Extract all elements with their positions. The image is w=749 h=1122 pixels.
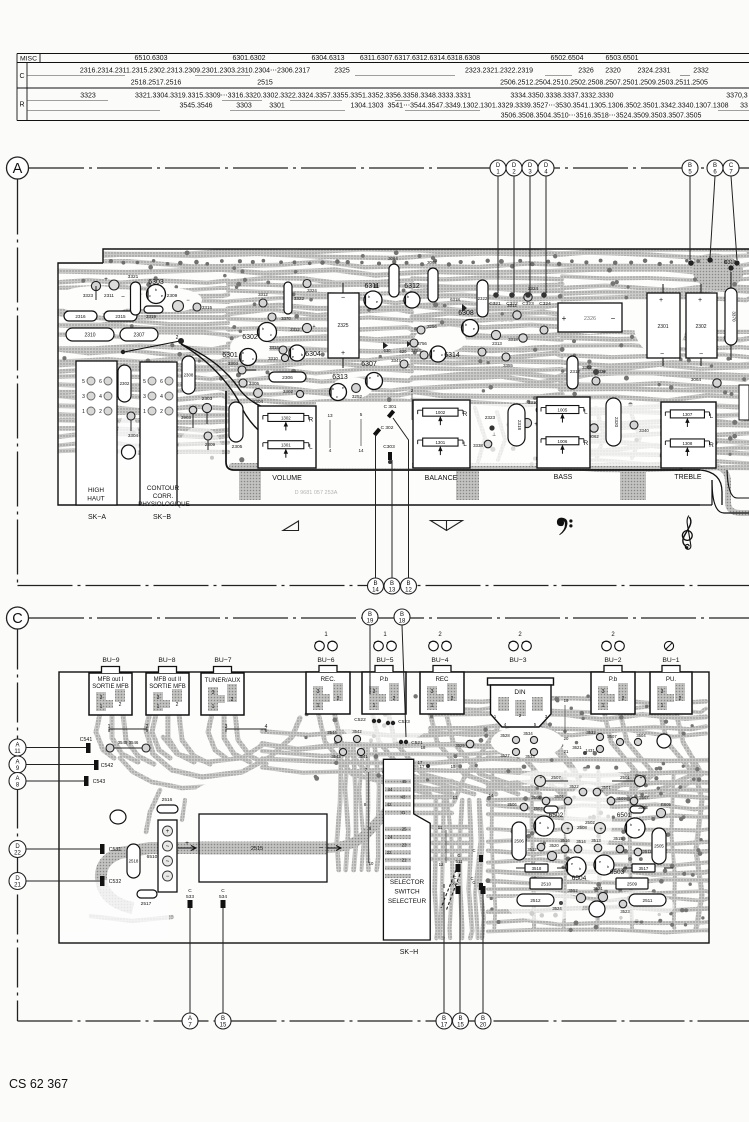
svg-text:511: 511: [456, 859, 464, 864]
svg-text:6308: 6308: [458, 310, 474, 317]
svg-text:3: 3: [143, 394, 146, 400]
resistor 3370b: [268, 313, 276, 321]
svg-text:3544: 3544: [327, 730, 337, 735]
svg-text:2512: 2512: [530, 898, 541, 903]
resistor 3518: [525, 864, 548, 872]
svg-text:−: −: [660, 351, 664, 358]
svg-text:2509: 2509: [627, 881, 638, 886]
svg-text:e: e: [638, 828, 640, 832]
node B14: [368, 578, 384, 594]
resistor 3062: [428, 268, 438, 302]
svg-text:c: c: [252, 356, 254, 361]
svg-text:3302: 3302: [283, 389, 294, 394]
transistor 6301: [240, 349, 257, 366]
wire A8 to cap: [26, 780, 86, 782]
svg-text:2309: 2309: [167, 293, 178, 299]
svg-text:19: 19: [564, 698, 569, 703]
svg-text:1002: 1002: [435, 410, 445, 415]
svg-text:3515: 3515: [613, 836, 623, 841]
icon jack pair BU-2: [602, 632, 625, 651]
wire to B15 left: [222, 908, 224, 1013]
svg-text:3062: 3062: [427, 260, 437, 265]
svg-text:SK−A: SK−A: [88, 514, 106, 521]
capacitor 2308: [182, 356, 195, 394]
resistor 3343: [417, 326, 425, 334]
svg-text:3533: 3533: [525, 754, 535, 759]
svg-text:−: −: [341, 295, 345, 302]
svg-text:2311: 2311: [104, 293, 114, 298]
svg-text:BALANCE: BALANCE: [425, 475, 458, 482]
svg-text:−: −: [121, 294, 125, 301]
resistor 3252: [352, 384, 361, 393]
connector BU-9 MFB out I: [89, 667, 132, 716]
svg-text:620: 620: [400, 349, 408, 354]
svg-text:SK−H: SK−H: [400, 949, 418, 956]
svg-text:MISC: MISC: [20, 56, 37, 63]
svg-text:+: +: [312, 324, 315, 330]
svg-text:b: b: [547, 826, 549, 830]
svg-text:3: 3: [157, 695, 160, 701]
svg-text:3301: 3301: [269, 103, 285, 110]
node D1: [490, 160, 506, 176]
resistor 3515: [616, 845, 624, 853]
connector SK-A pins: [82, 377, 112, 415]
rectifier 6510: [158, 820, 177, 892]
svg-text:15: 15: [220, 1023, 227, 1029]
svg-text:1: 1: [317, 703, 320, 709]
svg-text:2332: 2332: [693, 68, 709, 75]
capacitor 2501: [635, 776, 646, 787]
svg-text:1307: 1307: [683, 412, 693, 417]
wire section A dash-dot border: [18, 168, 749, 586]
resistor 3522: [579, 788, 587, 796]
svg-text:630: 630: [384, 348, 392, 353]
svg-text:~: ~: [166, 844, 170, 850]
parts right edge box: [739, 385, 749, 420]
svg-text:⊥: ⊥: [492, 432, 496, 438]
svg-text:E605: E605: [661, 802, 671, 807]
svg-text:D: D: [15, 876, 20, 882]
resistor 2516: [157, 805, 178, 813]
svg-text:A: A: [188, 1016, 192, 1022]
svg-text:C531: C531: [109, 847, 122, 853]
resistor 1431: [596, 745, 603, 752]
svg-text:2511: 2511: [643, 898, 653, 903]
svg-text:3: 3: [100, 695, 103, 701]
svg-text:6504: 6504: [572, 875, 587, 882]
wire A11 to cap: [26, 747, 88, 749]
svg-text:c: c: [441, 352, 443, 357]
svg-text:2507: 2507: [551, 775, 561, 780]
svg-text:MFB out II: MFB out II: [154, 677, 182, 683]
svg-text:10: 10: [369, 861, 374, 866]
capacitor C543: [84, 776, 89, 786]
svg-text:3303: 3303: [236, 103, 252, 110]
icon jack pair BU-3: [509, 632, 532, 651]
svg-text:3324: 3324: [307, 288, 317, 293]
wire section C dash-dot border: [18, 618, 749, 1021]
pin bracket 3-4: [226, 729, 266, 732]
pin numbers switch left outside: [364, 767, 374, 866]
svg-text:2: 2: [518, 632, 522, 638]
svg-text:−: −: [319, 845, 323, 852]
capacitor 2326: [558, 303, 622, 332]
resistor 3315: [193, 303, 201, 311]
svg-text:2302: 2302: [120, 381, 130, 386]
svg-text:3506: 3506: [507, 802, 517, 807]
resistor 2307: [120, 328, 158, 341]
svg-text:D: D: [544, 163, 549, 169]
svg-text:1308: 1308: [683, 441, 693, 446]
svg-text:3064: 3064: [388, 256, 398, 261]
svg-text:3321.3304.3319.3315.3309⋯3316.: 3321.3304.3319.3315.3309⋯3316.3320.3302.…: [135, 93, 471, 100]
capacitor C542: [94, 760, 99, 770]
svg-text:+: +: [659, 297, 663, 304]
svg-text:5: 5: [143, 379, 146, 385]
svg-text:2517: 2517: [141, 901, 152, 907]
capacitor C531: [100, 844, 105, 854]
svg-text:1: 1: [143, 409, 146, 415]
icon bowtie loudness: [431, 521, 463, 531]
capacitor 2304: [254, 389, 263, 398]
svg-text:2306: 2306: [282, 375, 293, 381]
svg-text:2324.2331: 2324.2331: [637, 68, 670, 75]
svg-text:6304.6313: 6304.6313: [311, 55, 344, 62]
svg-text:3524: 3524: [552, 906, 562, 911]
svg-text:3: 3: [431, 689, 434, 695]
resistor 2310: [66, 328, 114, 341]
svg-text:1: 1: [108, 724, 111, 730]
node pad C7: [734, 260, 739, 265]
svg-text:2301: 2301: [657, 324, 668, 330]
svg-text:SWITCH: SWITCH: [394, 889, 420, 896]
svg-text:2: 2: [231, 697, 234, 703]
svg-text:SK−B: SK−B: [153, 514, 171, 521]
resistor 3310: [281, 354, 288, 361]
svg-text:3542: 3542: [352, 729, 362, 734]
svg-text:15: 15: [457, 1023, 464, 1029]
svg-text:3505: 3505: [531, 795, 541, 800]
svg-text:+: +: [341, 350, 345, 357]
node A8: [9, 773, 26, 790]
svg-text:L: L: [309, 444, 313, 451]
resistor 3514: [574, 845, 582, 853]
resistor 3321: [131, 282, 141, 315]
resistor 3511: [634, 848, 642, 856]
resistor 3302: [296, 390, 303, 397]
svg-text:33: 33: [740, 103, 748, 110]
svg-text:3545.3546: 3545.3546: [179, 103, 212, 110]
resistor 3545 3546: [106, 744, 114, 752]
svg-text:C322: C322: [506, 301, 518, 307]
svg-text:3355: 3355: [503, 363, 513, 368]
svg-text:3323: 3323: [80, 93, 96, 100]
svg-text:C522: C522: [354, 717, 366, 723]
svg-text:2: 2: [160, 409, 163, 415]
svg-text:42: 42: [387, 802, 392, 807]
capacitor 2313: [491, 330, 500, 339]
svg-text:3315: 3315: [202, 305, 213, 310]
node D3: [522, 160, 538, 176]
svg-text:14: 14: [358, 448, 364, 453]
svg-text:2: 2: [337, 696, 340, 702]
svg-text:C 301: C 301: [384, 404, 397, 410]
svg-text:3504: 3504: [636, 733, 646, 738]
svg-text:3340: 3340: [639, 428, 649, 433]
wire B19 to board: [369, 625, 371, 694]
node C7: [723, 160, 739, 176]
resistor 3517: [632, 864, 655, 872]
svg-text:c: c: [149, 293, 151, 298]
svg-text:3523: 3523: [620, 909, 630, 914]
svg-text:11: 11: [14, 749, 21, 755]
resistor 2316: [64, 311, 97, 321]
svg-text:1005: 1005: [558, 408, 568, 413]
node B12: [401, 578, 417, 594]
svg-text:6301: 6301: [222, 352, 238, 359]
svg-text:3256: 3256: [427, 324, 437, 329]
svg-text:3534: 3534: [523, 731, 533, 736]
capacitor 2324: [522, 418, 531, 427]
wire dashed linkage 2: [446, 874, 460, 911]
capacitor 2309: [173, 301, 184, 312]
svg-text:BASS: BASS: [554, 474, 573, 481]
resistor 3370: [725, 288, 737, 345]
svg-text:4: 4: [99, 394, 102, 400]
svg-text:HAUT: HAUT: [87, 496, 104, 503]
wire D22 to cap: [26, 848, 102, 850]
wire D4 to board: [545, 176, 547, 293]
svg-text:TUNER/AUX: TUNER/AUX: [205, 677, 241, 684]
wire to B17: [443, 900, 445, 1013]
svg-text:1302: 1302: [281, 415, 291, 420]
resistor 3310: [536, 406, 544, 414]
svg-text:13: 13: [327, 413, 333, 418]
svg-text:L: L: [710, 413, 714, 420]
resistor 3502: [576, 893, 585, 902]
svg-text:C541: C541: [80, 737, 93, 743]
capacitor 2309b: [204, 432, 212, 440]
svg-text:3545 3546: 3545 3546: [118, 740, 139, 745]
svg-text:4: 4: [160, 394, 163, 400]
svg-text:BU−4: BU−4: [431, 657, 448, 664]
svg-text:BU−5: BU−5: [376, 657, 393, 664]
svg-text:D: D: [528, 163, 533, 169]
svg-text:3503: 3503: [638, 805, 648, 810]
svg-text:3319: 3319: [146, 314, 157, 319]
resistor 3532: [596, 733, 603, 740]
resistor 3303: [238, 366, 246, 374]
svg-text:C323: C323: [522, 301, 534, 307]
svg-text:A: A: [15, 760, 19, 766]
svg-text:6510.6303: 6510.6303: [134, 55, 167, 62]
svg-text:6510: 6510: [147, 854, 158, 860]
svg-text:SELECTEUR: SELECTEUR: [388, 898, 427, 905]
resistor 3064: [389, 264, 399, 297]
svg-text:B: B: [390, 581, 394, 587]
resistor 3324b: [303, 280, 311, 288]
capacitor 2320: [606, 398, 621, 446]
svg-text:2307: 2307: [133, 332, 144, 338]
wire C7 to board: [731, 176, 737, 260]
svg-text:21: 21: [564, 749, 569, 754]
svg-text:c: c: [270, 332, 272, 337]
svg-text:2316: 2316: [75, 314, 86, 319]
svg-text:b: b: [607, 865, 609, 869]
node A11: [9, 739, 26, 756]
svg-text:3302: 3302: [582, 365, 592, 370]
svg-text:23: 23: [402, 843, 407, 848]
svg-text:3252: 3252: [352, 394, 363, 399]
node B18: [394, 609, 410, 625]
svg-text:4: 4: [329, 448, 332, 453]
svg-text:3318: 3318: [508, 337, 518, 342]
resistor 3302b: [567, 356, 578, 389]
icon triangle: [283, 521, 299, 531]
resistor 2306: [269, 372, 306, 382]
capacitor 2502: [595, 823, 606, 834]
svg-text:2506: 2506: [514, 839, 524, 844]
svg-text:22: 22: [14, 851, 21, 857]
potentiometer VOLUME 1302/1301: [258, 406, 316, 468]
hole lower: [589, 901, 605, 917]
svg-text:3507: 3507: [639, 795, 649, 800]
transistor 6501: [625, 818, 645, 838]
node A9: [9, 756, 26, 773]
svg-text:1: 1: [82, 409, 85, 415]
svg-text:15: 15: [451, 764, 456, 769]
transistor 6302: [258, 323, 277, 342]
connector BU-5 Pb: [362, 666, 406, 715]
svg-text:3529: 3529: [455, 743, 465, 748]
svg-text:2312: 2312: [290, 327, 300, 332]
resistor 3338: [484, 440, 492, 448]
svg-text:3324: 3324: [528, 286, 539, 291]
svg-text:3303: 3303: [228, 361, 239, 366]
svg-text:D 9681 057 253A: D 9681 057 253A: [295, 490, 338, 496]
svg-text:3528: 3528: [500, 733, 510, 738]
svg-text:2326: 2326: [578, 68, 594, 75]
svg-text:3310: 3310: [268, 356, 278, 361]
svg-text:2: 2: [176, 335, 179, 341]
svg-text:1: 1: [324, 632, 328, 638]
svg-text:2326: 2326: [584, 316, 596, 322]
svg-text:3: 3: [225, 724, 228, 730]
wire black bus line above bottom strip: [226, 391, 700, 470]
svg-text:3518: 3518: [532, 866, 542, 871]
svg-text:2310: 2310: [84, 332, 95, 338]
node B13: [384, 578, 400, 594]
svg-text:2303: 2303: [202, 396, 213, 402]
svg-text:2313: 2313: [492, 341, 502, 346]
svg-text:1: 1: [157, 704, 160, 710]
resistor 3319: [144, 306, 163, 313]
capacitor 2515: [178, 814, 341, 882]
hole right: [657, 734, 671, 748]
svg-text:C: C: [221, 888, 225, 894]
wire B18 to board: [402, 625, 406, 737]
svg-text:3507: 3507: [607, 734, 617, 739]
resistor 3323: [83, 281, 101, 300]
svg-text:3347: 3347: [391, 358, 401, 363]
capacitor 2518: [127, 844, 140, 878]
svg-text:3: 3: [373, 689, 376, 695]
resistor 3062c: [590, 424, 598, 432]
svg-text:6303: 6303: [148, 279, 164, 286]
svg-text:b: b: [579, 867, 581, 871]
svg-text:+: +: [640, 775, 643, 781]
svg-text:D: D: [15, 844, 20, 850]
svg-text:BU−2: BU−2: [604, 657, 621, 664]
resistor 3304: [127, 412, 135, 420]
connector BU-1 PU: [650, 666, 692, 715]
svg-text:45: 45: [402, 779, 407, 784]
resistor 3305: [239, 379, 247, 387]
svg-text:BU−8: BU−8: [158, 657, 175, 664]
svg-text:3314: 3314: [269, 345, 279, 350]
svg-text:11: 11: [438, 825, 443, 830]
svg-text:2508: 2508: [577, 825, 587, 830]
svg-text:3514: 3514: [576, 839, 586, 844]
transistor 6314: [430, 346, 446, 362]
svg-text:2: 2: [146, 724, 149, 730]
connector SK-A compartment: [76, 361, 117, 505]
svg-text:6302: 6302: [242, 334, 258, 341]
svg-text:C542: C542: [101, 763, 114, 769]
resistor 3512: [537, 843, 545, 851]
resistor 3320: [540, 326, 548, 334]
svg-text:3506.3508.3504.3510⋯3516.3518⋯: 3506.3508.3504.3510⋯3516.3518⋯3524.3509.…: [501, 113, 702, 120]
svg-text:PU.: PU.: [666, 676, 677, 683]
potentiometer BASS 1005/1006: [537, 397, 590, 468]
connector BU-3 DIN: [488, 678, 554, 727]
svg-text:3334.3350.3338.3337.3332.3330: 3334.3350.3338.3337.3332.3330: [510, 93, 613, 100]
svg-text:3604: 3604: [554, 794, 564, 799]
svg-text:e: e: [599, 860, 601, 864]
svg-text:3: 3: [82, 394, 85, 400]
capacitor C541: [86, 743, 91, 753]
resistor 3534: [530, 736, 537, 743]
capacitor 2318: [508, 404, 525, 446]
transistor 6311: [364, 291, 382, 309]
svg-text:3541: 3541: [358, 754, 368, 759]
svg-text:B: B: [688, 163, 692, 169]
node C322: [509, 292, 515, 298]
svg-text:c: c: [292, 346, 294, 351]
svg-text:3543: 3543: [331, 754, 341, 759]
svg-text:21: 21: [14, 883, 21, 889]
svg-text:6: 6: [160, 379, 163, 385]
node C321: [493, 292, 499, 298]
resistor 3523: [619, 900, 627, 908]
resistor 2517: [137, 890, 157, 898]
svg-text:13: 13: [453, 795, 458, 800]
svg-text:B: B: [713, 163, 717, 169]
potentiometer TREBLE 1307/1308: [661, 402, 716, 468]
connector BU-2 Pb: [591, 666, 635, 715]
svg-text:+: +: [566, 827, 570, 833]
wire pad2 to left: [124, 341, 180, 352]
resistor 3542: [353, 735, 360, 742]
svg-text:A: A: [15, 776, 19, 782]
svg-text:SELECTOR: SELECTOR: [390, 879, 425, 886]
resistor 3501: [593, 788, 601, 796]
svg-text:2518: 2518: [129, 859, 139, 864]
svg-text:+: +: [602, 370, 606, 376]
svg-text:1: 1: [602, 703, 605, 709]
svg-text:R: R: [19, 102, 24, 109]
connector BU-4 REC: [420, 666, 464, 715]
